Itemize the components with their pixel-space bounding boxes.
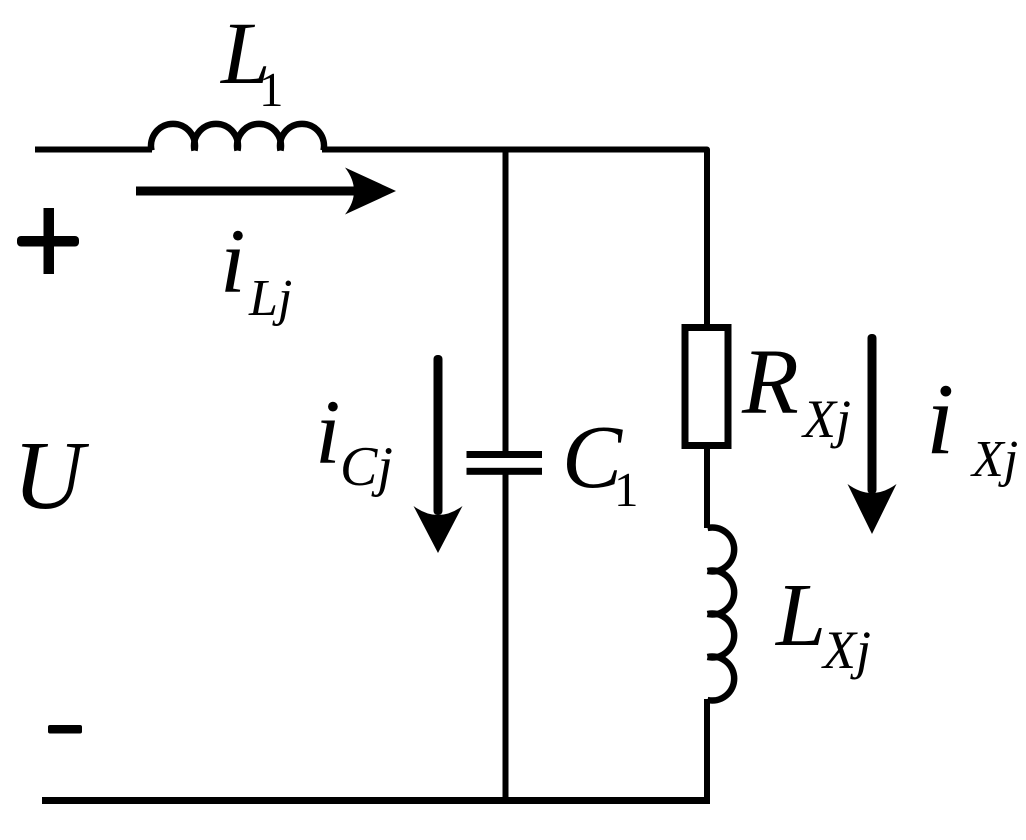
svg-text:i: i: [220, 210, 246, 312]
svg-text:U: U: [13, 422, 90, 530]
svg-text:Cj: Cj: [340, 436, 393, 498]
svg-text:Lj: Lj: [248, 270, 292, 327]
svg-text:R: R: [741, 331, 799, 434]
svg-text:Xj: Xj: [821, 620, 871, 680]
svg-text:L: L: [774, 566, 826, 665]
svg-text:Xj: Xj: [970, 431, 1018, 488]
svg-text:1: 1: [614, 462, 639, 517]
svg-text:i: i: [926, 363, 954, 476]
svg-text:i: i: [315, 381, 341, 483]
svg-text:1: 1: [259, 62, 284, 117]
svg-text:Xj: Xj: [801, 389, 851, 449]
